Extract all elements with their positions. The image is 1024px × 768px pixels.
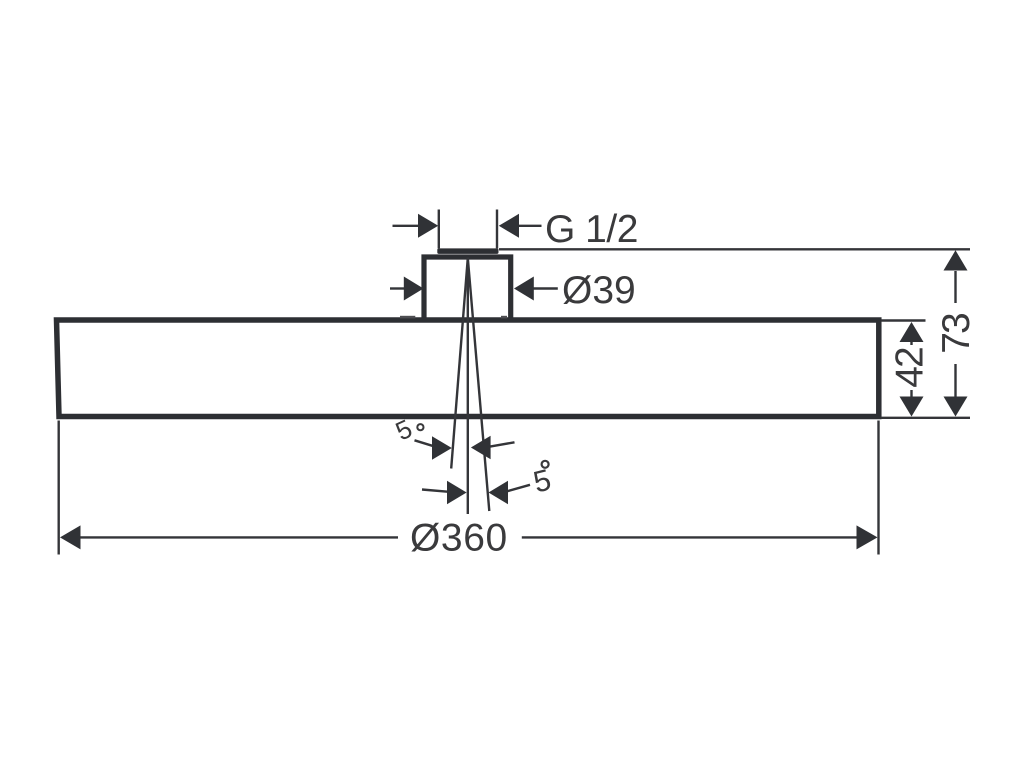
- svg-text:Ø39: Ø39: [562, 269, 636, 312]
- svg-text:Ø360: Ø360: [410, 517, 508, 560]
- svg-text:G 1/2: G 1/2: [545, 208, 638, 251]
- svg-text:5: 5: [530, 464, 554, 500]
- svg-text:73: 73: [935, 314, 978, 354]
- svg-text:42: 42: [889, 348, 932, 388]
